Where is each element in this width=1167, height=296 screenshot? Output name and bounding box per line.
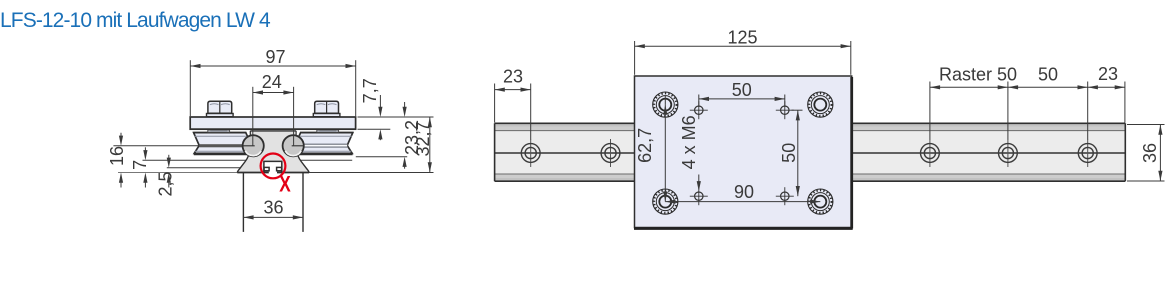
svg-text:2,5: 2,5 xyxy=(156,171,176,196)
svg-text:125: 125 xyxy=(727,27,757,47)
svg-text:36: 36 xyxy=(1140,143,1160,163)
svg-text:50: 50 xyxy=(779,143,799,163)
svg-text:X: X xyxy=(279,172,291,197)
svg-text:16: 16 xyxy=(107,146,127,166)
svg-text:7: 7 xyxy=(130,160,150,170)
svg-text:36: 36 xyxy=(263,198,283,218)
svg-text:23: 23 xyxy=(503,67,523,87)
svg-text:50: 50 xyxy=(732,80,752,100)
svg-text:23: 23 xyxy=(1098,64,1118,84)
svg-text:50: 50 xyxy=(1038,65,1058,85)
svg-text:97: 97 xyxy=(265,47,285,67)
svg-text:32,7: 32,7 xyxy=(413,121,433,156)
svg-text:4 x M6: 4 x M6 xyxy=(679,115,699,169)
svg-text:62,7: 62,7 xyxy=(635,128,655,163)
svg-text:90: 90 xyxy=(734,182,754,202)
svg-text:24: 24 xyxy=(262,72,282,92)
svg-text:Raster 50: Raster 50 xyxy=(939,65,1017,85)
svg-text:LFS-12-10 mit Laufwagen LW 4: LFS-12-10 mit Laufwagen LW 4 xyxy=(0,9,271,32)
svg-text:7,7: 7,7 xyxy=(360,78,380,103)
